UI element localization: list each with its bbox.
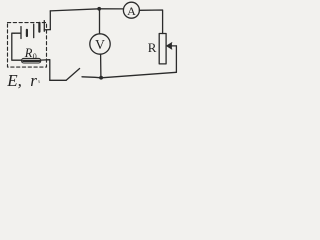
battery plate long 3 (+) (43, 21, 45, 32)
wire bottom (corner to junction) (101, 72, 176, 78)
wire voltmeter bottom lead (100, 54, 102, 78)
resistor R0 body (22, 58, 41, 63)
wire battery to top-left corner (49, 11, 51, 30)
rheostat slider arrow (168, 45, 176, 47)
switch fixed contact (82, 77, 101, 78)
ammeter A (123, 2, 139, 18)
battery E,r (14, 21, 50, 39)
wire junction to ammeter (99, 8, 123, 10)
junction node bottom (99, 76, 103, 80)
rheostat R body (159, 34, 166, 64)
battery plate short 1 (-) (26, 30, 28, 36)
dashed battery box (8, 23, 47, 68)
svg-text:R: R (24, 46, 33, 60)
svg-text:E,: E, (6, 71, 22, 90)
battery right lead wire (44, 29, 50, 31)
switch blade (open) (66, 69, 79, 81)
svg-text:A: A (127, 4, 136, 18)
battery plate long 1 (+) (20, 27, 22, 39)
svg-text:0: 0 (33, 52, 37, 61)
resistor R0 right wire, down to switch (41, 60, 50, 81)
wire slider down to bottom-right corner (175, 46, 177, 72)
svg-text:V: V (95, 37, 105, 52)
svg-text:r: r (30, 71, 37, 90)
wire voltmeter top lead (99, 9, 101, 34)
wire top (corner to junction) (50, 9, 99, 11)
voltmeter V (90, 34, 110, 54)
scan speck after r (38, 80, 41, 83)
battery plate short 2 (-) (38, 23, 40, 32)
wire ammeter to top-right corner, down to rheostat (139, 10, 162, 34)
svg-text:R: R (148, 40, 157, 55)
rheostat arrowhead (167, 43, 172, 50)
junction node top (97, 7, 101, 11)
battery left lead wire (14, 32, 21, 34)
battery plate long 2 (+) (33, 24, 35, 37)
switch pivot wire (50, 79, 66, 81)
resistor R0 left wire (12, 33, 22, 60)
